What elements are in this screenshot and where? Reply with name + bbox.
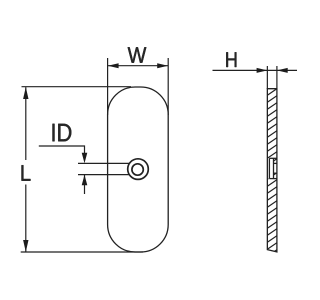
dimension W extension line right <box>167 58 169 115</box>
dimension L line lower segment <box>25 185 27 252</box>
slot edge bottom line <box>78 174 129 176</box>
side view hole hatch patch upper <box>267 89 277 257</box>
side view hole section left wall <box>268 158 270 178</box>
dimension L arrow down <box>23 240 28 252</box>
dimension ID label <box>53 124 72 142</box>
dimension W line <box>108 65 168 67</box>
dimension ID leader underline <box>39 146 85 158</box>
side view through hole top edge <box>274 162 277 164</box>
dimension L label <box>22 165 31 181</box>
dimension W extension line left <box>107 58 109 115</box>
hole inner circle <box>132 164 143 175</box>
dimension L extension line bottom <box>21 251 143 253</box>
side view hole hatch patch lower <box>267 89 277 257</box>
dimension ID arrow up <box>82 175 88 186</box>
dimension H arrow left <box>257 68 268 73</box>
side view hatching upper <box>267 89 277 257</box>
dimension ID arrow up tail <box>84 175 86 194</box>
dimension H extension line left <box>266 66 268 89</box>
side view hatching lower <box>267 89 277 257</box>
dimension L arrow up <box>23 87 28 99</box>
side view hole section bottom edge <box>269 178 277 180</box>
dimension W arrow right <box>157 63 168 68</box>
slot edge top line <box>78 162 129 164</box>
side view hole section top edge <box>269 157 277 159</box>
side view plate outline <box>267 89 277 252</box>
dimension H label <box>226 52 236 67</box>
dimension L extension line top <box>22 86 132 88</box>
dimension W arrow left <box>108 63 119 68</box>
side view hole section mid wall <box>273 158 275 178</box>
front view plate outline <box>108 87 169 252</box>
side view through hole bottom edge <box>274 172 277 174</box>
dimension H line <box>213 69 298 71</box>
dimension H arrow right <box>277 68 288 73</box>
dimension L line upper segment <box>25 87 27 160</box>
dimension W label <box>128 47 147 62</box>
hole outer circle <box>128 159 149 180</box>
dimension ID arrow down <box>82 153 88 164</box>
dimension H extension line right <box>276 66 278 89</box>
